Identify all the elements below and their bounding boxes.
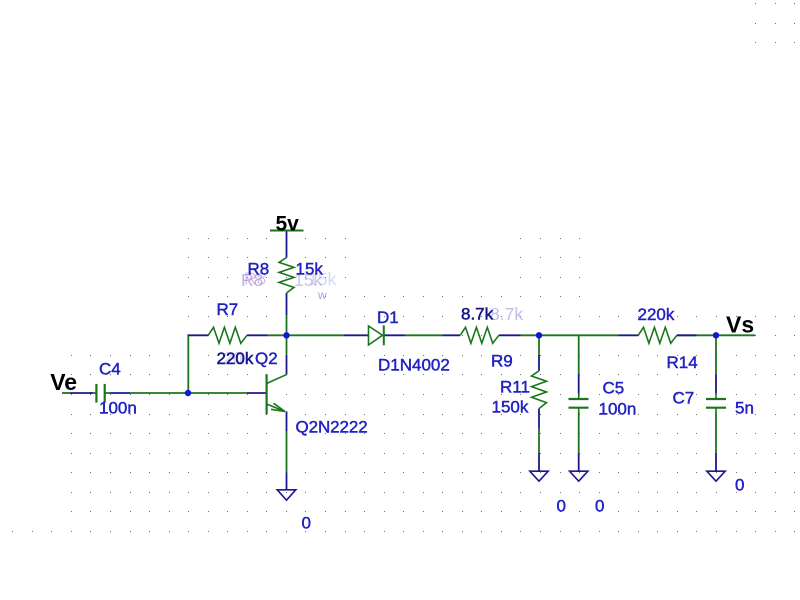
wire D1 to R9 <box>405 334 442 336</box>
resistor R14 body <box>638 327 677 343</box>
wire R14 to node Vs <box>677 334 716 336</box>
resistor R7 pins <box>188 334 208 336</box>
resistor R11 pins <box>538 355 540 371</box>
capacitor C7 top pin <box>715 374 717 394</box>
svg-text:R9: R9 <box>491 352 513 371</box>
svg-text:5n: 5n <box>735 398 754 417</box>
wire Q2 emitter down <box>286 431 288 472</box>
svg-text:C5: C5 <box>603 378 625 397</box>
node Vs junction <box>713 332 719 338</box>
svg-text:220k: 220k <box>638 305 675 324</box>
wire R9 to node B <box>521 334 540 336</box>
resistor R9 pins <box>442 334 460 336</box>
svg-text:15k: 15k <box>296 260 324 279</box>
svg-text:R8: R8 <box>248 260 270 279</box>
capacitor C4 plates <box>95 384 97 403</box>
transistor Q2 body <box>266 374 268 414</box>
wire C4 to input node <box>105 392 111 394</box>
wire C7 to ground <box>715 412 717 453</box>
wire C5 column down <box>578 335 580 374</box>
ground under C5 <box>570 471 588 481</box>
svg-text:Q2: Q2 <box>255 349 278 368</box>
svg-text:Q2N2222: Q2N2222 <box>296 418 368 437</box>
capacitor C5 top pin <box>578 374 580 394</box>
ground under Q2 <box>277 490 296 500</box>
svg-text:8.7k: 8.7k <box>490 304 523 324</box>
ground pin under C5 <box>578 453 580 472</box>
svg-text:0: 0 <box>595 496 604 515</box>
ground pin under Q2 <box>286 472 288 490</box>
ground under C7 <box>707 471 725 481</box>
resistor R8 body <box>279 258 294 294</box>
wire Ve to C4 (navy drawn later) <box>62 392 70 394</box>
wire node A to D1 <box>287 334 345 336</box>
ghost text R8 (drag artifact) <box>223 269 523 369</box>
svg-text:8.7k: 8.7k <box>461 305 494 324</box>
power symbol 5v bar <box>270 230 304 232</box>
svg-text:R7: R7 <box>217 300 239 319</box>
svg-text:R14: R14 <box>667 353 698 372</box>
wire node A up to R8 <box>286 315 288 335</box>
svg-text:5v: 5v <box>276 212 300 235</box>
svg-text:w: w <box>317 288 327 302</box>
svg-text:C7: C7 <box>673 388 695 407</box>
wire R7 corner <box>187 334 189 336</box>
wire stub right of Vs <box>716 334 755 336</box>
diode D1 pins <box>344 334 369 336</box>
wire C5 to ground <box>578 412 580 453</box>
svg-text:0: 0 <box>735 475 744 494</box>
svg-text:D1N4002: D1N4002 <box>378 356 450 375</box>
transistor Q2 collector pin <box>286 355 288 374</box>
resistor R14 pins <box>618 334 638 336</box>
wire node A down to Q2 collector <box>286 335 288 355</box>
wire node B down to R11 <box>538 335 540 355</box>
ground pin under R11 <box>538 453 540 472</box>
capacitor C5 plates <box>569 398 589 400</box>
ground pin under C7 <box>715 453 717 472</box>
capacitor C4 right pin <box>111 392 131 394</box>
capacitor C7 plates <box>706 398 726 400</box>
svg-text:0: 0 <box>557 496 566 515</box>
svg-text:D1: D1 <box>377 308 399 327</box>
svg-text:100n: 100n <box>99 398 137 417</box>
svg-text:Vs: Vs <box>726 312 754 338</box>
wire Ve lead <box>70 392 93 394</box>
wire R7 to node A <box>268 334 287 336</box>
resistor R8 pins <box>286 231 288 258</box>
wire input node to Q2 base <box>188 392 247 394</box>
resistor R7 body <box>208 327 247 343</box>
svg-text:150k: 150k <box>492 397 529 416</box>
svg-text:Ve: Ve <box>50 369 77 395</box>
svg-text:220k: 220k <box>217 349 254 368</box>
transistor Q2 emitter pin <box>286 411 288 431</box>
resistor R11 body <box>532 371 547 409</box>
wire R11 to ground <box>538 429 540 453</box>
wire node B to C5 column to R14 <box>539 334 618 336</box>
wire input node up to R7 <box>187 334 189 393</box>
svg-text:C4: C4 <box>99 360 121 379</box>
svg-text:100n: 100n <box>599 399 637 418</box>
wire Vs node down to C7 <box>715 335 717 374</box>
ground under R11 <box>530 471 548 481</box>
node B junction <box>536 332 542 338</box>
diode D1 body <box>369 326 383 345</box>
svg-text:R11: R11 <box>500 377 530 396</box>
resistor R9 body <box>460 327 499 343</box>
svg-text:0: 0 <box>302 514 311 533</box>
input node junction <box>185 390 191 396</box>
transistor Q2 base pin <box>247 392 267 394</box>
node A junction <box>283 332 289 338</box>
